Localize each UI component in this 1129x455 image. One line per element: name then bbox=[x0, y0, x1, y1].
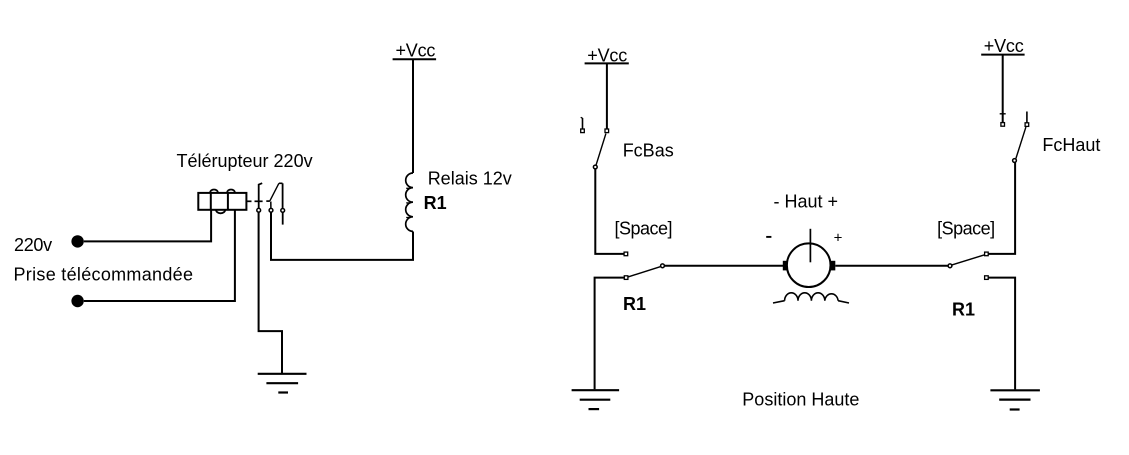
power +Vcc rail (FcHaut branch) bbox=[981, 36, 1024, 56]
motor brush right bbox=[830, 261, 835, 271]
svg-text:R1: R1 bbox=[623, 294, 646, 314]
wire +Vcc to FcBas bbox=[606, 63, 608, 128]
wire Space-right upper terminal to FcHaut bbox=[988, 162, 1015, 254]
wire pole1 to ground bbox=[259, 212, 282, 373]
svg-text:+Vcc: +Vcc bbox=[587, 45, 627, 65]
motor brush left bbox=[783, 261, 787, 271]
ground FcHaut branch bbox=[990, 390, 1040, 409]
switch FcHaut bbox=[1001, 112, 1029, 163]
wire pole2 to relay coil bbox=[271, 212, 413, 260]
wire +Vcc to FcHaut bbox=[1000, 55, 1006, 123]
motor M body bbox=[787, 229, 831, 287]
svg-text:220v: 220v bbox=[14, 235, 52, 255]
wire Space-left to motor bbox=[664, 265, 783, 267]
svg-text:R1: R1 bbox=[952, 300, 975, 320]
svg-text:+: + bbox=[834, 229, 843, 246]
wire motor to Space right bbox=[835, 265, 948, 267]
telerupteur contact pole 3 bbox=[281, 183, 285, 224]
svg-text:R1: R1 bbox=[424, 193, 447, 213]
wire FcBas to Space-left upper terminal bbox=[595, 169, 624, 254]
wire Space-right lower terminal to ground bbox=[988, 278, 1015, 390]
telerupteur coil box bbox=[198, 190, 246, 214]
wire +Vcc to relay coil bbox=[412, 60, 414, 173]
switch Space right R1 contact bbox=[948, 252, 988, 279]
switch FcBas bbox=[581, 117, 609, 169]
svg-text:+Vcc: +Vcc bbox=[396, 41, 436, 61]
label minus motor bbox=[766, 236, 771, 238]
svg-text:[Space]: [Space] bbox=[937, 218, 995, 238]
svg-text:FcHaut: FcHaut bbox=[1042, 135, 1100, 155]
telerupteur contact pole 1 bbox=[257, 183, 262, 212]
ground FcBas branch bbox=[572, 390, 620, 409]
power +Vcc rail (relay) bbox=[393, 41, 437, 61]
wire 220v dot to coil bbox=[84, 210, 211, 241]
svg-text:+Vcc: +Vcc bbox=[984, 36, 1024, 56]
mechanical linkage dashes bbox=[246, 200, 270, 202]
svg-text:Relais 12v: Relais 12v bbox=[428, 169, 512, 189]
inductor under motor bbox=[773, 293, 849, 303]
switch Space left R1 contact bbox=[624, 252, 664, 279]
svg-text:Prise télécommandée: Prise télécommandée bbox=[14, 264, 194, 284]
telerupteur contact pole 2 bbox=[269, 183, 282, 212]
node 220v terminal dot bbox=[71, 235, 83, 247]
wire prise dot to coil bbox=[84, 210, 235, 301]
svg-text:FcBas: FcBas bbox=[623, 140, 674, 160]
wire Space-left lower terminal to ground bbox=[595, 278, 625, 390]
power +Vcc rail (FcBas branch) bbox=[585, 45, 629, 65]
svg-text:Position Haute: Position Haute bbox=[742, 389, 859, 409]
svg-text:[Space]: [Space] bbox=[615, 218, 673, 238]
svg-text:Télérupteur 220v: Télérupteur 220v bbox=[177, 151, 313, 171]
relay coil R1 bbox=[406, 173, 413, 231]
svg-text:- Haut +: - Haut + bbox=[774, 192, 839, 212]
ground left schematic bbox=[258, 374, 307, 393]
node prise terminal dot bbox=[71, 295, 83, 307]
